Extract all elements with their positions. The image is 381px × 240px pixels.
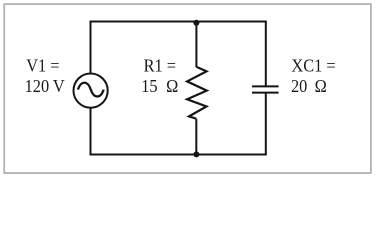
svg-text:R1 =: R1 =	[144, 56, 176, 76]
svg-text:20 Ω: 20 Ω	[291, 77, 327, 97]
svg-text:15 Ω: 15 Ω	[141, 77, 178, 97]
svg-text:XC1 =: XC1 =	[291, 56, 335, 76]
svg-text:V1 =: V1 =	[26, 56, 59, 76]
svg-text:120 V: 120 V	[25, 77, 66, 97]
